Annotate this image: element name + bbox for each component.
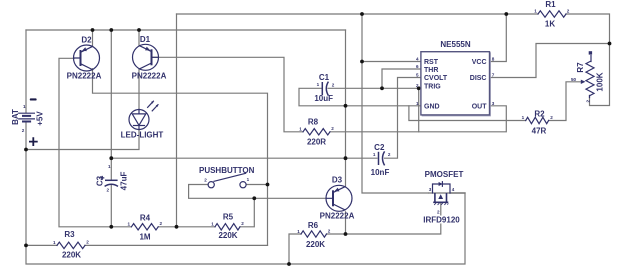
- wire R5 pin2 riser to D3 base row: [240, 198, 254, 227]
- svg-text:5: 5: [416, 73, 419, 78]
- wire VCC pin riser to top rail: [490, 14, 507, 62]
- junction dot C3/R4 pin1: [109, 225, 113, 229]
- wire TRIG riser to OUT row: [418, 88, 420, 132]
- junction dot node row/x345.5: [344, 156, 348, 160]
- svg-text:1: 1: [23, 104, 26, 109]
- wire R8 pin1 to D1 base riser x284: [152, 57, 303, 132]
- svg-text:1: 1: [416, 101, 419, 106]
- svg-text:LED-LIGHT: LED-LIGHT: [121, 131, 164, 140]
- svg-text:R5: R5: [223, 213, 234, 222]
- svg-text:50: 50: [571, 77, 577, 82]
- resistor R2: [526, 117, 549, 123]
- resistor R6: [301, 231, 327, 237]
- wire R3 row y245.4: [26, 244, 268, 246]
- transistor D2: [74, 45, 100, 71]
- junction dot pushbutton pin1: [266, 183, 270, 187]
- svg-text:3: 3: [492, 101, 495, 106]
- svg-text:2: 2: [107, 188, 110, 193]
- svg-text:1: 1: [211, 222, 214, 227]
- svg-text:1: 1: [247, 177, 250, 182]
- transistor D1 (mirrored): [133, 44, 159, 70]
- junction dot R6 riser/bottom rail: [287, 262, 291, 266]
- transistor D3: [326, 185, 352, 211]
- svg-text:220K: 220K: [62, 251, 81, 260]
- capacitor C3 (polarized): [101, 177, 118, 187]
- svg-text:RST: RST: [424, 59, 439, 66]
- svg-text:1K: 1K: [545, 20, 555, 29]
- wire pushbutton pin1 to x267.5: [246, 184, 267, 186]
- junction dot left rail/R3 pin1: [24, 244, 28, 248]
- svg-text:R2: R2: [534, 110, 545, 119]
- wire R4 pin2 to R5 pin1 row: [158, 226, 215, 228]
- wire OUT pin to R8 row y131.8: [330, 106, 506, 132]
- svg-text:C3: C3: [95, 175, 104, 186]
- svg-text:1: 1: [53, 240, 56, 245]
- op-amp U1 555 timer box NE555N: [421, 52, 491, 116]
- wire GND row to R2 pin1 riser: [409, 106, 526, 121]
- svg-text:1: 1: [108, 164, 111, 169]
- junction dot D1 collector/rail: [137, 28, 141, 32]
- wire long node row y158.2 (C3 to C2/D3 collector): [111, 157, 377, 159]
- junction dot node row/C3 branch: [109, 156, 113, 160]
- wire DISC pin to x609 riser y43.5: [490, 44, 610, 78]
- wire pushbutton pin2 U-loop and D3 base row y198.3: [189, 185, 327, 199]
- wire RST net x362 to PMOSFET pin3: [362, 14, 429, 193]
- svg-text:VCC: VCC: [472, 59, 487, 66]
- wire vertical x345.5 (rail to D3 collector): [345, 30, 347, 187]
- wire left rail x26 upper: [25, 30, 27, 113]
- svg-text:D3: D3: [332, 176, 343, 185]
- svg-text:2: 2: [204, 178, 207, 183]
- svg-text:1: 1: [317, 82, 320, 87]
- wire top rail y14: [177, 13, 539, 15]
- potentiometer R7: [581, 51, 594, 97]
- resistor R1: [538, 11, 566, 17]
- svg-text:R4: R4: [140, 214, 151, 223]
- svg-text:8: 8: [492, 57, 495, 62]
- pushbutton PUSHBUTTON: [208, 173, 246, 187]
- svg-text:D1: D1: [140, 35, 151, 44]
- LED LED-LIGHT: [129, 101, 159, 130]
- svg-text:DISC: DISC: [470, 75, 487, 82]
- svg-text:6: 6: [416, 64, 419, 69]
- svg-text:GND: GND: [424, 103, 440, 110]
- junction dot THR riser/TRIG row: [380, 86, 384, 90]
- svg-text:NE555N: NE555N: [440, 40, 470, 49]
- battery BAT +5V: [19, 98, 38, 146]
- svg-text:2: 2: [437, 210, 440, 215]
- svg-text:1: 1: [299, 126, 302, 131]
- junction dot x362/top rail: [360, 12, 364, 16]
- svg-text:THR: THR: [424, 67, 438, 74]
- svg-text:2: 2: [241, 221, 244, 226]
- svg-text:4: 4: [416, 57, 419, 62]
- svg-text:220R: 220R: [307, 138, 326, 147]
- capacitor C1: [322, 82, 328, 96]
- wire R1 pin2 to pot bottom loop via x609: [566, 14, 610, 106]
- svg-text:2: 2: [388, 152, 391, 157]
- label IRFD9120: [423, 216, 460, 225]
- svg-text:220K: 220K: [218, 231, 237, 240]
- junction dot C3 branch/rail: [109, 28, 113, 32]
- svg-text:1: 1: [127, 221, 130, 226]
- wire R2 pin2 riser to R7 wiper row: [549, 82, 583, 121]
- svg-text:2: 2: [22, 128, 25, 133]
- svg-text:10uF: 10uF: [314, 94, 333, 103]
- svg-text:C2: C2: [374, 143, 385, 152]
- wire D1 collector riser: [138, 30, 140, 46]
- svg-text:+5V: +5V: [36, 111, 45, 126]
- resistor R5: [215, 224, 240, 230]
- svg-text:2: 2: [550, 115, 553, 120]
- wire PMOSFET pin4 stub: [450, 192, 465, 194]
- svg-text:1M: 1M: [139, 233, 150, 242]
- wire D3 emitter riser: [345, 212, 347, 234]
- junction dot D3 emitter/R6 row: [344, 232, 348, 236]
- junction dot VCC riser/top rail: [504, 12, 508, 16]
- svg-text:1: 1: [373, 152, 376, 157]
- svg-text:R6: R6: [308, 221, 319, 230]
- wire D2 collector riser: [92, 30, 94, 46]
- resistor R8: [303, 129, 330, 135]
- svg-text:BAT: BAT: [11, 109, 20, 125]
- svg-text:PN2222A: PN2222A: [132, 72, 167, 81]
- svg-text:47R: 47R: [532, 126, 547, 135]
- wire battery plus branch y149.5 to LED cathode: [26, 130, 139, 150]
- junction dot GND row/x345.5: [344, 104, 348, 108]
- wire vertical x176.5 (top rail to R4 pin2): [176, 14, 178, 227]
- junction dot D2 collector/rail: [91, 28, 95, 32]
- svg-text:2: 2: [331, 126, 334, 131]
- svg-text:PN2222A: PN2222A: [320, 212, 355, 221]
- svg-text:TRIG: TRIG: [424, 84, 441, 91]
- svg-text:PUSHBUTTON: PUSHBUTTON: [199, 166, 255, 175]
- svg-text:D2: D2: [81, 36, 92, 45]
- resistor R4: [131, 224, 158, 230]
- svg-text:7: 7: [492, 73, 495, 78]
- capacitor C2: [379, 151, 385, 165]
- svg-text:OUT: OUT: [472, 103, 488, 110]
- wire supply rail y30: [26, 29, 346, 31]
- svg-text:2: 2: [567, 9, 570, 14]
- svg-text:C1: C1: [319, 73, 330, 82]
- svg-text:2: 2: [160, 221, 163, 226]
- junction dot DISC row/x609: [608, 42, 612, 46]
- wire D2 base to R4/C3 row: [59, 58, 131, 227]
- svg-text:10nF: 10nF: [371, 168, 390, 177]
- svg-text:2: 2: [586, 100, 591, 103]
- junction dot RST pin/x362: [360, 60, 364, 64]
- svg-text:R3: R3: [64, 230, 75, 239]
- wire D1 emitter to LED anode: [138, 69, 140, 110]
- svg-text:R7: R7: [576, 62, 585, 73]
- wire THR pin riser to TRIG row: [382, 69, 421, 88]
- wire left rail x26 lower + bottom rail + PMOSFET drain riser: [26, 122, 465, 264]
- svg-text:2: 2: [328, 228, 331, 233]
- svg-text:3: 3: [429, 187, 432, 192]
- transistor Q1 PMOSFET: [429, 182, 465, 205]
- wire C3 branch x111.3: [110, 30, 112, 227]
- wire RST pin: [362, 61, 421, 63]
- svg-text:PMOSFET: PMOSFET: [425, 170, 464, 179]
- svg-text:CVOLT: CVOLT: [424, 75, 448, 82]
- wire R6 pin1 riser to bottom rail: [289, 234, 301, 264]
- svg-text:1: 1: [297, 229, 300, 234]
- svg-text:IRFD9120: IRFD9120: [423, 216, 460, 225]
- svg-text:R8: R8: [308, 118, 319, 127]
- svg-text:1: 1: [534, 9, 537, 14]
- svg-text:2: 2: [86, 240, 89, 245]
- junction dot R4 pin2/R5 pin1/x176.5: [175, 225, 179, 229]
- wire C2 pin2 to CVOLT riser: [385, 78, 422, 159]
- svg-text:220K: 220K: [306, 240, 325, 249]
- wire C1 pin1 jog to GND pin y105.8: [299, 88, 421, 106]
- svg-text:2: 2: [332, 82, 335, 87]
- junction dot TRIG pin riser: [417, 86, 421, 90]
- svg-text:4: 4: [452, 187, 455, 192]
- wire C1 pin2 to TRIG pin y88.3: [328, 87, 421, 89]
- svg-text:PN2222A: PN2222A: [67, 72, 102, 81]
- junction dot R5 riser/D3 base row: [252, 196, 256, 200]
- svg-text:47uF: 47uF: [120, 172, 129, 191]
- resistor R3: [57, 242, 85, 248]
- svg-text:2: 2: [416, 83, 419, 88]
- svg-text:1: 1: [522, 115, 525, 120]
- svg-text:100K: 100K: [596, 72, 605, 91]
- wire R6 pin2 to PMOSFET gate riser y234: [327, 203, 441, 234]
- wire D2 emitter to pushbutton pin1 and R3 row: [93, 69, 268, 246]
- junction dot battery plus branch: [24, 148, 28, 152]
- svg-text:R1: R1: [545, 0, 556, 9]
